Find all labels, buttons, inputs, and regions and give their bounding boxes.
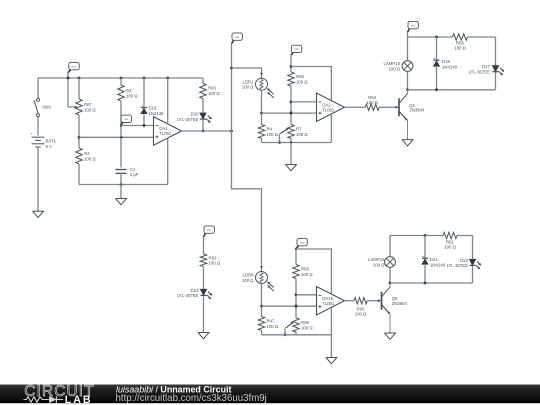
capacitor C1 1uF	[116, 167, 139, 177]
wire switch top	[37, 78, 39, 98]
wire pot top	[78, 78, 80, 99]
junction C1-ground	[120, 183, 123, 186]
potentiometer R7 100	[288, 125, 309, 139]
wire ground stem (C1)	[120, 185, 122, 199]
svg-text:TL081: TL081	[322, 107, 335, 112]
svg-text:1N4148: 1N4148	[442, 64, 458, 69]
junction OA1 V+ rail	[166, 77, 169, 80]
wire D22 column	[472, 236, 474, 260]
junction D21 top	[424, 234, 427, 237]
junction wiper-rail OA15	[284, 333, 287, 336]
resistor R3 100	[118, 85, 139, 101]
op-amp OA15	[317, 287, 345, 316]
wire to LDR1	[232, 68, 262, 78]
LED D22 LTL-307EE	[447, 258, 482, 269]
wire vcc to rail3	[407, 32, 409, 37]
wire R66 column	[290, 55, 292, 125]
resistor R63 100	[200, 84, 221, 99]
svg-text:+: +	[30, 132, 32, 136]
wire D17 column	[495, 37, 497, 66]
svg-text:R58: R58	[301, 267, 309, 272]
svg-text:2N3904: 2N3904	[409, 108, 425, 113]
wire D21 top	[424, 236, 426, 259]
wire battery to ground	[37, 147, 39, 211]
LED D20 LTL-307EE	[177, 112, 212, 123]
wire lamp top rail	[408, 36, 496, 38]
wire minus input OA1	[121, 125, 154, 127]
transistor Q8 2N3904	[382, 283, 408, 333]
wire OA15 V+ loop	[296, 249, 331, 294]
wire D23 to ground	[203, 296, 205, 332]
arrow on R59 column	[295, 304, 297, 307]
wire C1 to rail	[120, 173, 122, 184]
svg-text:LDR8: LDR8	[243, 273, 255, 278]
svg-text:100 Ω: 100 Ω	[84, 156, 96, 161]
svg-text:R65: R65	[456, 40, 464, 45]
svg-text:R67: R67	[84, 102, 92, 107]
wire OA15 V- pin	[330, 307, 332, 334]
junction D19-minus	[143, 124, 146, 127]
svg-text:R47: R47	[267, 319, 275, 324]
svg-text:LDR1: LDR1	[243, 79, 255, 84]
svg-text:D21: D21	[430, 257, 438, 262]
wire LDR1 to plus net	[261, 90, 263, 113]
svg-text:9 V: 9 V	[46, 144, 53, 149]
footer bar	[0, 385, 540, 404]
arrow into Q1 base	[396, 106, 399, 108]
wire OA1 V- pin	[167, 138, 169, 184]
wire lamp top	[407, 37, 409, 61]
svg-text:100 Ω: 100 Ω	[296, 132, 308, 137]
junction plus crossing OA15	[295, 305, 298, 308]
resistor R64 100	[365, 95, 379, 111]
svg-text:100 Ω: 100 Ω	[242, 85, 254, 90]
ground (battery)	[33, 211, 44, 217]
resistor R65 100	[453, 34, 468, 51]
ground (OA2 block)	[286, 165, 297, 171]
resistor R61 100	[443, 232, 457, 249]
svg-text:on: on	[125, 117, 129, 121]
wire vcc top rail	[38, 77, 203, 79]
svg-text:LTL-307EE: LTL-307EE	[177, 293, 199, 298]
switch SW1	[34, 98, 52, 116]
svg-text:100 Ω: 100 Ω	[296, 79, 308, 84]
ground (OA1 block)	[116, 199, 127, 205]
wire minus input OA2	[291, 101, 317, 103]
junction D21 bottom	[424, 282, 427, 285]
svg-text:vcc: vcc	[300, 240, 305, 244]
junction R66-minus	[290, 101, 293, 104]
footer url	[116, 393, 267, 404]
arrow into LDR1	[261, 73, 263, 75]
svg-text:100 Ω: 100 Ω	[301, 325, 313, 330]
svg-text:D20: D20	[191, 112, 199, 117]
svg-text:2N3904: 2N3904	[392, 301, 408, 306]
junction lamp16-collector	[389, 282, 392, 285]
footer title	[116, 384, 231, 394]
svg-text:vcc: vcc	[72, 64, 77, 68]
svg-text:R61: R61	[446, 239, 454, 244]
wire D22 bottom	[472, 266, 474, 283]
transistor Q1 2N3904	[399, 90, 425, 140]
wire long vertical net	[232, 44, 262, 272]
svg-text:100 Ω: 100 Ω	[208, 91, 220, 96]
junction pot-rail	[78, 77, 81, 80]
svg-text:LAMP16: LAMP16	[368, 257, 385, 262]
junction R58-minus	[295, 293, 298, 296]
resistor R66 100	[288, 72, 309, 86]
wire switch to battery	[37, 117, 39, 136]
junction ground stem OA2	[290, 141, 292, 143]
ground (D23 branch)	[198, 333, 209, 339]
junction wiper-rail	[278, 141, 281, 144]
wire R7 bottom	[290, 139, 292, 143]
wire flag to R62	[203, 237, 205, 254]
node sw flag	[232, 33, 243, 44]
svg-text:TL081: TL081	[159, 131, 172, 136]
resistor R60 100	[354, 298, 367, 317]
wire D21 bottom	[424, 265, 426, 283]
svg-text:D17: D17	[482, 64, 490, 69]
resistor R2 100	[76, 148, 97, 164]
arrow into Q8 base	[378, 300, 381, 302]
svg-text:1N4148: 1N4148	[430, 262, 446, 267]
wire LDR8 to plus net	[261, 284, 263, 307]
svg-text:C1: C1	[130, 167, 136, 172]
svg-text:BAT1: BAT1	[46, 139, 57, 144]
junction flag-minus	[120, 124, 122, 126]
photoresistor LDR1 100	[242, 78, 274, 98]
svg-text:SW1: SW1	[42, 105, 52, 110]
junction output-column	[230, 130, 233, 133]
svg-text:R59: R59	[301, 320, 309, 325]
wire R63 to D20	[202, 99, 204, 114]
diode D19 1N4148	[141, 106, 165, 116]
junction D19-rail	[143, 77, 146, 80]
wire lamp16 top	[389, 236, 391, 257]
wire minus input OA15	[296, 294, 317, 296]
wire plus input OA1	[79, 136, 154, 138]
svg-text:100 Ω: 100 Ω	[267, 132, 279, 137]
svg-text:100 Ω: 100 Ω	[388, 66, 400, 71]
wire vcc flag to wiper	[68, 73, 74, 107]
resistor R58 100	[293, 265, 314, 279]
junction R3-rail	[120, 77, 123, 80]
wire lamp16 top rail	[390, 235, 473, 237]
ground (Q8)	[385, 333, 396, 339]
svg-text:R3: R3	[126, 88, 132, 93]
diode D21 1N4148	[422, 257, 446, 268]
wire R64 to Q1 base	[379, 106, 395, 108]
wire OA1 bottom rail	[79, 184, 168, 186]
svg-text:R66: R66	[296, 74, 304, 79]
wiper wire R7	[280, 128, 289, 142]
junction D18 top	[435, 36, 438, 39]
potentiometer R67 100	[75, 99, 97, 115]
wire D18 top	[436, 37, 438, 60]
junction flag-loop	[295, 248, 297, 250]
svg-text:R63: R63	[208, 86, 216, 91]
wire plus input OA2	[262, 112, 317, 114]
node vcc flag (OA15)	[296, 238, 307, 248]
svg-text:LTL-307EE: LTL-307EE	[177, 117, 199, 122]
resistor R62 100	[200, 254, 221, 267]
resistor R47 100	[258, 317, 279, 331]
arrow into LDR8	[261, 266, 263, 268]
arrow on R7 column	[290, 111, 292, 114]
node vcc flag (OA2)	[291, 45, 302, 55]
node vcc flag (D23 branch)	[204, 226, 215, 237]
svg-text:100 Ω: 100 Ω	[242, 278, 254, 283]
wire R4 top	[261, 113, 263, 124]
wire OA1 output	[182, 130, 232, 132]
wire R3 top	[120, 78, 122, 85]
op-amp OA2	[317, 93, 345, 122]
wire OA2 bottom rail	[262, 142, 332, 144]
CircuitLab logo symbol	[24, 396, 64, 403]
ground (OA15 block)	[326, 358, 337, 364]
svg-text:100 Ω: 100 Ω	[301, 272, 313, 277]
svg-text:R64: R64	[368, 95, 376, 100]
junction flag-rail	[67, 77, 70, 80]
photoresistor LDR8 100	[242, 272, 274, 292]
svg-text:vcc: vcc	[207, 228, 212, 232]
wire R47 bottom	[261, 331, 263, 335]
svg-text:100 Ω: 100 Ω	[84, 107, 96, 112]
wire OA2 V- pin	[330, 114, 332, 143]
wire OA1 V+ pin	[167, 78, 169, 124]
junction LDR8-plus	[260, 305, 263, 308]
potentiometer R59 100	[293, 318, 314, 332]
wire pot to R2	[78, 115, 80, 148]
svg-text:100 Ω: 100 Ω	[444, 245, 456, 250]
diode D18 1N4148	[433, 59, 458, 70]
junction D18 bottom	[435, 88, 438, 91]
svg-text:D22: D22	[460, 258, 468, 263]
lamp LAMP16 100	[368, 257, 395, 268]
op-amp OA1	[154, 117, 182, 146]
svg-text:100 Ω: 100 Ω	[355, 312, 367, 317]
svg-text:R60: R60	[357, 306, 365, 311]
wire D18 bottom	[436, 67, 438, 90]
svg-text:100 Ω: 100 Ω	[366, 100, 378, 105]
wire D19 top	[143, 78, 145, 107]
junction plus-tap	[78, 136, 81, 139]
CircuitLab logo LAB	[65, 394, 93, 405]
junction LDR1 tap	[230, 67, 233, 70]
svg-text:R2: R2	[84, 151, 90, 156]
svg-text:100 Ω: 100 Ω	[209, 261, 221, 266]
svg-text:1N4148: 1N4148	[149, 111, 165, 116]
svg-text:LAMP18: LAMP18	[384, 61, 401, 66]
svg-text:R4: R4	[267, 127, 273, 132]
lamp LAMP18 100	[384, 61, 413, 72]
wire R3 to C1 (minus net)	[120, 101, 122, 168]
junction lamp-collector	[406, 88, 409, 91]
svg-text:vcc: vcc	[294, 47, 299, 51]
ground (Q1)	[402, 140, 413, 146]
wire R62 to D23	[203, 267, 205, 290]
CircuitLab logo text	[24, 383, 94, 400]
svg-text:TL081: TL081	[322, 301, 335, 306]
wire R60 to Q8 base	[367, 300, 378, 302]
svg-text:http://circuitlab.com/cs3k36uu: http://circuitlab.com/cs3k36uu3fm9j	[116, 393, 267, 404]
resistor R4 100	[258, 125, 279, 139]
svg-text:LTL-307EE: LTL-307EE	[447, 263, 469, 268]
wire R47 top	[261, 306, 263, 316]
wire ground stem (OA15)	[330, 335, 332, 358]
svg-text:LTL-307EE: LTL-307EE	[469, 69, 491, 74]
wire OA2 V+ loop	[291, 67, 331, 101]
node vcc flag (battery block)	[68, 62, 79, 72]
wire lamp16 bottom rail	[390, 282, 473, 284]
wire OA15 output	[345, 300, 355, 302]
svg-text:LAB: LAB	[65, 394, 93, 405]
svg-text:100 Ω: 100 Ω	[267, 324, 279, 329]
wire OA15 bottom rail	[262, 334, 332, 336]
junction plus crossing	[290, 112, 293, 115]
node flag on OA1 minus input	[121, 115, 132, 125]
svg-text:D18: D18	[442, 59, 450, 64]
svg-text:vcc: vcc	[411, 23, 416, 27]
wire plus input OA15	[262, 305, 317, 307]
svg-text:D19: D19	[149, 106, 157, 111]
wire lamp bottom rail	[408, 89, 496, 91]
battery BAT1 9V	[30, 132, 56, 149]
wire R4 bottom	[261, 139, 263, 143]
wire lamp16 bottom	[389, 267, 391, 283]
junction D20-output	[202, 130, 205, 133]
node vcc flag (lamp block)	[408, 21, 419, 32]
LED D23 LTL-307EE	[177, 288, 212, 299]
svg-text:R7: R7	[296, 127, 302, 132]
svg-text:D23: D23	[191, 288, 199, 293]
wire R58 column	[295, 249, 297, 318]
wire D17 bottom	[495, 72, 497, 89]
svg-text:1 µF: 1 µF	[130, 172, 139, 177]
svg-text:100 Ω: 100 Ω	[454, 46, 466, 51]
wire R59 bottom	[295, 332, 297, 335]
wiper wire R59	[285, 322, 293, 335]
svg-text:100 Ω: 100 Ω	[373, 262, 385, 267]
wire R2 to bottom rail	[78, 164, 80, 185]
LED D17 LTL-307EE	[469, 64, 505, 75]
junction LDR1-plus	[260, 112, 263, 115]
svg-text:100 Ω: 100 Ω	[126, 93, 138, 98]
wire lamp bottom	[407, 71, 409, 89]
arrow on plus wire	[121, 136, 124, 138]
svg-text:R62: R62	[209, 255, 217, 260]
wire ground stem (OA2)	[290, 143, 292, 165]
wire D19 bottom	[143, 114, 145, 125]
wire OA2 output	[345, 106, 366, 108]
junction V+ loop tap	[290, 65, 293, 68]
wire rail corner to R63	[202, 78, 204, 84]
wire D20 to output	[202, 120, 204, 131]
